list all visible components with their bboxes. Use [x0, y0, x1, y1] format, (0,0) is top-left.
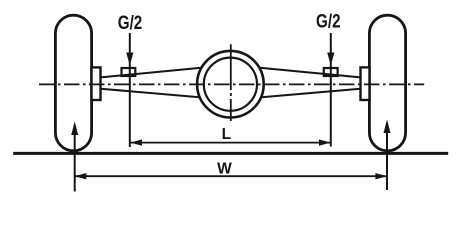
- right tire outline: [369, 15, 405, 151]
- right hub rectangle: [361, 67, 370, 100]
- svg-text:G/2: G/2: [316, 11, 341, 33]
- L dimension left arrowhead: [130, 139, 142, 145]
- right spring seat: [324, 68, 338, 76]
- left tire outline: [55, 15, 91, 151]
- axle beam right bottom line: [262, 89, 361, 98]
- differential housing inner circle: [204, 58, 257, 111]
- svg-text:G/2: G/2: [118, 12, 143, 34]
- axle beam left top line: [101, 68, 202, 78]
- svg-text:W: W: [217, 161, 232, 178]
- left reaction arrow line: [74, 125, 76, 192]
- L dimension right arrowhead: [319, 139, 331, 145]
- left hub rectangle: [92, 67, 101, 100]
- ground line: [13, 152, 448, 155]
- left reaction arrowhead: [71, 122, 78, 136]
- left spring seat: [122, 68, 136, 76]
- right load arrow line: [330, 33, 332, 147]
- L dimension line: [130, 142, 330, 144]
- W dimension left arrowhead: [75, 173, 87, 179]
- vertical circle centerline: [230, 44, 232, 121]
- W dimension right arrowhead: [375, 173, 387, 179]
- W dimension line: [75, 175, 387, 177]
- axle beam right top line: [260, 68, 361, 78]
- axle beam left bottom line: [101, 89, 200, 98]
- differential housing outer circle: [197, 51, 264, 118]
- right reaction arrow line: [386, 123, 388, 190]
- right load arrowhead: [327, 53, 334, 66]
- svg-text:L: L: [222, 126, 231, 143]
- left load arrowhead: [126, 53, 133, 66]
- left load arrow line: [129, 33, 131, 147]
- right reaction arrowhead: [384, 120, 391, 134]
- horizontal axle centerline: [39, 83, 424, 85]
